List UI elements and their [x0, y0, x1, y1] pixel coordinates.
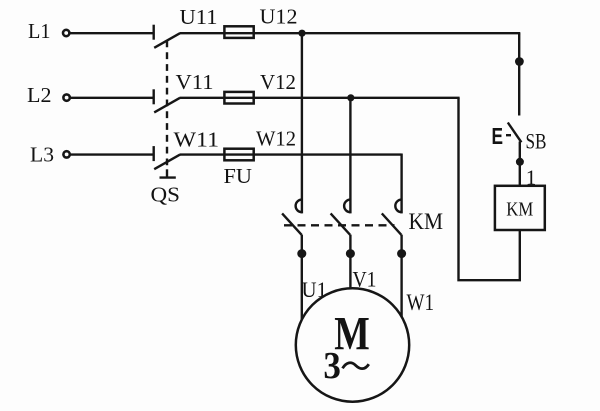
- terminal L3: [63, 151, 69, 157]
- label tilde of 3~: [343, 363, 369, 369]
- wire QS pole 2 through fuse V to control return corner: [180, 97, 460, 99]
- QS pole 2 fixed contact tick: [152, 89, 154, 104]
- motor M circle: [296, 288, 409, 401]
- svg-text:W12: W12: [256, 127, 296, 151]
- fuse FU pole U body: [224, 26, 253, 38]
- node KM pole 3 lower dot: [397, 249, 406, 258]
- KM pole 3 blade: [382, 213, 402, 234]
- terminal L1: [63, 30, 69, 36]
- wire L1 terminal to QS pole 1: [70, 32, 153, 34]
- wire L2 terminal to QS pole 2: [70, 97, 152, 99]
- svg-text:E: E: [492, 123, 504, 149]
- svg-text:SB: SB: [526, 129, 547, 154]
- QS pole 3 fixed contact tick: [152, 146, 154, 161]
- pushbutton SB actuator link dash: [506, 134, 511, 136]
- QS pole 1 fixed contact tick: [152, 25, 154, 40]
- node V12 branch junction: [347, 94, 354, 101]
- wire QS pole 3 through fuse W to corner: [180, 153, 402, 155]
- node KM pole 1 lower dot: [297, 249, 306, 258]
- svg-text:W11: W11: [174, 128, 220, 152]
- wire SB to coil KM: [519, 142, 521, 187]
- svg-text:U12: U12: [260, 5, 298, 29]
- wire KM pole 2 to motor V1: [349, 235, 351, 289]
- svg-text:L1: L1: [28, 19, 51, 43]
- svg-text:3: 3: [323, 345, 341, 387]
- QS pole 2 blade: [154, 98, 180, 113]
- KM pole 1 fixed contact arc: [296, 200, 302, 213]
- svg-text:QS: QS: [151, 183, 181, 207]
- node control branch dot: [515, 57, 524, 66]
- QS pole 1 blade: [154, 33, 180, 48]
- KM pole 3 fixed contact arc: [395, 200, 401, 213]
- wire QS pole 1 through fuse U to control branch corner: [180, 32, 521, 34]
- terminal L2: [63, 94, 69, 100]
- svg-text:L3: L3: [30, 143, 54, 167]
- QS handle bar: [160, 176, 176, 178]
- svg-text:U11: U11: [180, 5, 218, 29]
- wire L3 terminal to QS pole 3: [70, 153, 152, 155]
- node below SB: [516, 158, 524, 166]
- svg-text:W1: W1: [407, 290, 435, 315]
- node KM pole 2 lower dot: [346, 249, 355, 258]
- svg-text:L2: L2: [27, 83, 52, 107]
- fuse FU pole W body: [224, 149, 253, 161]
- wire KM pole 1 to motor U1: [301, 235, 303, 320]
- QS mechanical linkage dashed line: [166, 41, 168, 170]
- wire control branch down right side: [518, 33, 520, 115]
- QS pole 3 blade: [154, 155, 180, 170]
- svg-text:KM: KM: [506, 199, 533, 221]
- node U12 branch junction: [298, 30, 305, 37]
- QS handle stem: [166, 169, 168, 177]
- fuse FU pole V body: [224, 92, 253, 104]
- pushbutton SB blade: [508, 123, 522, 143]
- wire coil KM return to V12: [459, 98, 520, 280]
- svg-text:V12: V12: [260, 70, 296, 94]
- KM pole 2 blade: [331, 213, 351, 234]
- svg-text:FU: FU: [224, 164, 253, 188]
- wire KM pole 3 to motor W1: [400, 235, 402, 317]
- KM contacts linkage dashed line: [284, 224, 395, 226]
- wire V12 drop to KM pole 2: [349, 98, 351, 214]
- svg-text:V11: V11: [176, 70, 214, 94]
- coil KM box: [495, 186, 545, 230]
- wire W12 drop to KM pole 3: [400, 154, 402, 214]
- svg-text:KM: KM: [409, 209, 444, 234]
- KM pole 1 blade: [282, 213, 302, 234]
- KM pole 2 fixed contact arc: [344, 200, 350, 213]
- wire U12 drop to KM pole 1: [301, 33, 303, 213]
